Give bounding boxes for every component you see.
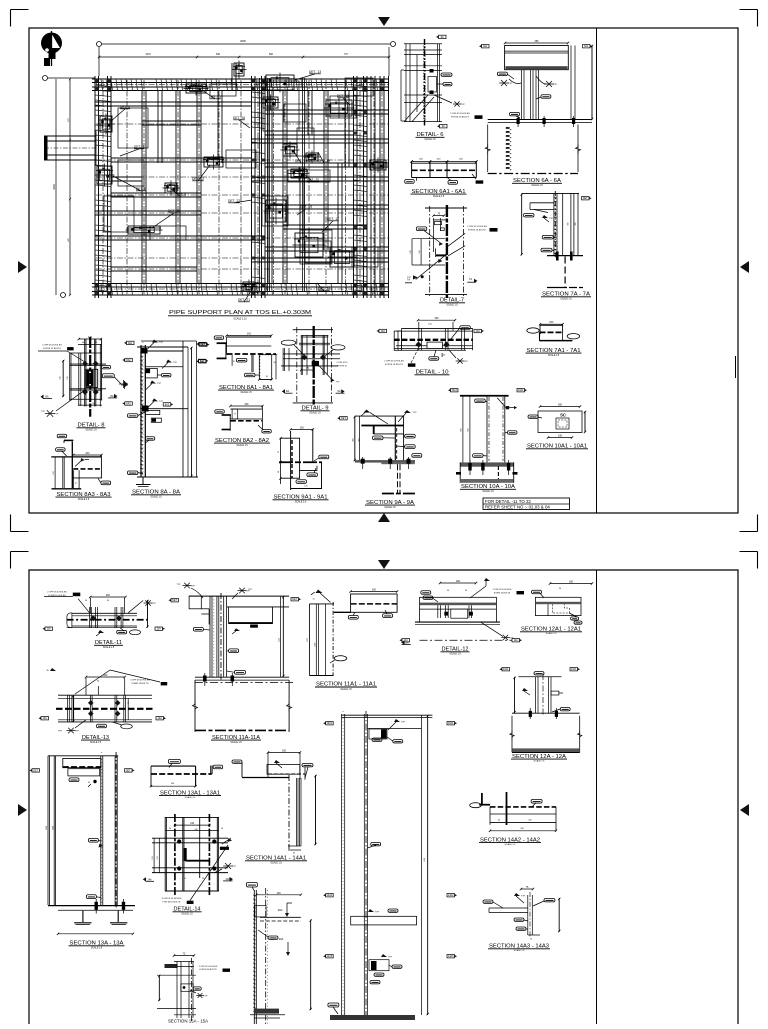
svg-text:120: 120 [152, 856, 154, 859]
section SECTION 6A1-6A1 [405, 159, 484, 199]
svg-text:12A: 12A [514, 639, 519, 642]
plan grid bubbles and dimensions [43, 39, 396, 298]
svg-text:TYP: TYP [335, 382, 340, 384]
svg-text:TYP: TYP [41, 411, 46, 413]
svg-text:SCALE 1:5: SCALE 1:5 [433, 195, 445, 198]
svg-text:2 OFF Ø 16: 2 OFF Ø 16 [337, 362, 349, 364]
sheet 1 fold tick on right border [735, 356, 737, 378]
svg-text:75: 75 [234, 414, 236, 416]
section SECTION 14A1-14A1 [232, 750, 317, 865]
svg-text:PIPE SUPPORT PLAN AT TOS EL.+0: PIPE SUPPORT PLAN AT TOS EL.+0.303M [169, 310, 311, 316]
svg-text:TYP: TYP [508, 83, 513, 85]
detail DETAIL-6 [401, 35, 483, 141]
svg-text:13A: 13A [158, 717, 163, 720]
svg-text:DET: DET [292, 598, 297, 601]
sheet 2 title block separator [596, 570, 598, 1024]
svg-text:FOR M 16 BOLTS: FOR M 16 BOLTS [468, 230, 486, 232]
svg-text:SCALE 1:5: SCALE 1:5 [449, 653, 461, 656]
sheet 1 centering mark left [18, 261, 27, 273]
svg-text:TYP: TYP [58, 731, 63, 733]
svg-text:240: 240 [190, 822, 195, 825]
svg-text:150: 150 [558, 435, 563, 438]
svg-text:DET: DET [172, 599, 177, 602]
svg-text:8A2: 8A2 [200, 360, 205, 363]
svg-text:2 OFF Ø 14 HOLES: 2 OFF Ø 14 HOLES [467, 226, 487, 228]
sheet 1 crop mark top-right [740, 9, 758, 11]
detail DETAIL-9 [281, 326, 348, 415]
svg-text:SCALE 1:5: SCALE 1:5 [424, 138, 436, 141]
detail DETAIL-10 [377, 317, 485, 375]
svg-text:150: 150 [549, 321, 554, 324]
svg-text:FOR M 16 BOLTS: FOR M 16 BOLTS [385, 364, 403, 366]
svg-text:TYP: TYP [173, 362, 178, 364]
svg-text:6A: 6A [442, 125, 445, 128]
svg-text:10A1: 10A1 [451, 389, 457, 392]
sheet 1 crop mark top-left [11, 9, 29, 11]
svg-text:SCALE 1:5: SCALE 1:5 [78, 498, 90, 501]
svg-text:800: 800 [269, 53, 274, 56]
svg-text:DET: DET [126, 769, 131, 772]
svg-text:SCALE 1:5: SCALE 1:5 [90, 741, 102, 744]
svg-text:120: 120 [157, 856, 159, 859]
svg-text:14A: 14A [147, 878, 152, 881]
svg-text:14A3: 14A3 [327, 955, 333, 958]
svg-text:20: 20 [202, 878, 204, 880]
section SECTION 12A-12A [500, 668, 582, 763]
svg-text:TYP: TYP [203, 996, 208, 998]
svg-text:DET- 17: DET- 17 [327, 217, 339, 221]
svg-text:450: 450 [353, 438, 355, 441]
svg-text:DET- 7: DET- 7 [134, 145, 144, 149]
svg-text:DET: DET [200, 343, 205, 346]
svg-text:2 OFF Ø 14 HOLES: 2 OFF Ø 14 HOLES [384, 361, 404, 363]
svg-text:2500: 2500 [53, 826, 55, 830]
svg-text:20: 20 [169, 828, 171, 830]
sheet 1 border [29, 28, 738, 513]
svg-text:200: 200 [106, 594, 111, 597]
svg-text:FOR M 16 BOLTS: FOR M 16 BOLTS [163, 901, 181, 903]
svg-text:180: 180 [569, 581, 574, 584]
section middle tall elevation (sheet 2 bottom) [246, 883, 312, 1025]
svg-text:SCALE 1:5: SCALE 1:5 [103, 646, 115, 649]
svg-text:FOR M 16: FOR M 16 [337, 365, 347, 367]
svg-text:1370: 1370 [145, 53, 151, 56]
svg-text:SCALE 1:10: SCALE 1:10 [233, 318, 247, 321]
svg-text:DET- 20: DET- 20 [318, 287, 330, 291]
svg-text:1125: 1125 [278, 638, 280, 642]
svg-text:FORM 16 BOLTS: FORM 16 BOLTS [494, 592, 511, 594]
svg-text:DET- 10: DET- 10 [168, 209, 180, 213]
left protruding beam [44, 130, 99, 166]
svg-text:8A: 8A [110, 394, 113, 398]
svg-text:DET: DET [33, 769, 38, 772]
note box FOR DETAIL 11 TO 22 [483, 498, 570, 510]
svg-text:10A1: 10A1 [518, 389, 524, 392]
svg-text:SCALE 1:5: SCALE 1:5 [185, 796, 197, 799]
svg-text:TYP: TYP [460, 104, 465, 106]
svg-text:2500: 2500 [46, 826, 48, 830]
section bottom-left small detail (sheet 2) [157, 953, 230, 1024]
svg-text:30: 30 [266, 376, 268, 378]
section SECTION 8A3-8A3 [51, 434, 112, 501]
detail DETAIL-7 [405, 205, 498, 307]
svg-text:12A1: 12A1 [503, 668, 509, 671]
detail DETAIL-8 [38, 336, 128, 432]
svg-text:60: 60 [82, 342, 84, 344]
sheet 1 centering mark right [740, 261, 749, 273]
svg-text:11A: 11A [47, 628, 51, 631]
svg-text:9A: 9A [286, 389, 289, 393]
svg-text:SCALE 1:5: SCALE 1:5 [560, 298, 572, 301]
svg-text:4 OFF Ø 16 HOLES: 4 OFF Ø 16 HOLES [130, 680, 150, 682]
svg-text:10: 10 [233, 361, 235, 363]
section SECTION 8A-8A [119, 340, 210, 499]
svg-text:DET- 15: DET- 15 [337, 94, 349, 98]
svg-text:13A: 13A [43, 717, 48, 720]
svg-text:160: 160 [244, 403, 249, 406]
svg-text:15: 15 [312, 599, 314, 601]
svg-text:150: 150 [304, 486, 307, 488]
north arrow symbol [41, 31, 62, 66]
svg-text:6A1: 6A1 [584, 45, 589, 48]
svg-text:DET: DET [583, 197, 588, 200]
svg-text:7A: 7A [469, 277, 472, 281]
svg-text:TYP: TYP [176, 584, 181, 586]
svg-text:16A1: 16A1 [327, 722, 333, 725]
sheet 1 title block separator [596, 28, 598, 513]
svg-text:8A3: 8A3 [165, 403, 170, 406]
svg-text:TYP: TYP [157, 383, 162, 385]
svg-text:2500: 2500 [53, 184, 56, 190]
plan detail cluster group [95, 61, 389, 294]
detail DETAIL-13 [39, 668, 168, 744]
sheet 2 centering mark right [740, 804, 749, 816]
svg-text:10A: 10A [476, 330, 481, 333]
sheet 2 border (cut off at page bottom) [29, 570, 738, 1024]
detail DETAIL-11 [43, 592, 166, 650]
svg-text:DET- 16: DET- 16 [233, 116, 245, 120]
svg-text:DET: DET [341, 417, 346, 420]
svg-text:30: 30 [273, 362, 275, 364]
svg-text:SCALE 1:5: SCALE 1:5 [91, 947, 103, 950]
svg-text:2 OFF Ø 16 HOLES: 2 OFF Ø 16 HOLES [42, 345, 62, 347]
svg-text:DET- 6: DET- 6 [120, 105, 130, 109]
svg-text:29A: 29A [279, 937, 284, 941]
svg-text:145: 145 [277, 892, 282, 895]
svg-text:FOR M-16 BOLTS: FOR M-16 BOLTS [451, 117, 469, 119]
svg-text:TYP: TYP [191, 586, 196, 588]
svg-text:DET- 11: DET- 11 [209, 95, 221, 99]
section SECTION 8A1-8A1 [196, 333, 277, 395]
svg-text:FOR M 16 BOLTS: FOR M 16 BOLTS [43, 348, 61, 350]
section SECTION 11A-11A [169, 583, 302, 744]
svg-text:REFER SHEET NO :- 02,03 & 04: REFER SHEET NO :- 02,03 & 04 [485, 505, 550, 510]
svg-text:SCALE 1:5: SCALE 1:5 [309, 412, 321, 415]
plan DET callout labels [110, 70, 350, 302]
section SECTION 10A1-10A1 [526, 404, 588, 450]
svg-text:6A1: 6A1 [483, 45, 488, 48]
section SECTION 7A1-7A1 [526, 321, 582, 357]
svg-text:240: 240 [372, 589, 377, 592]
svg-text:SCALE 1:5: SCALE 1:5 [236, 444, 248, 447]
svg-text:TYP: TYP [375, 912, 380, 914]
svg-text:SCALE 1:5: SCALE 1:5 [230, 741, 242, 744]
svg-text:14A2: 14A2 [448, 894, 454, 897]
svg-text:8A2: 8A2 [126, 359, 131, 362]
svg-text:TYP: TYP [401, 722, 406, 724]
svg-text:FOR DETAIL -11 TO 22: FOR DETAIL -11 TO 22 [485, 499, 531, 504]
svg-text:TYP: TYP [75, 731, 80, 733]
section SECTION 12A1-12A1 [520, 581, 593, 636]
svg-text:10A: 10A [381, 330, 386, 333]
svg-text:200: 200 [456, 580, 461, 583]
sheet 2 crop mark top-right [740, 551, 758, 553]
svg-text:12A: 12A [404, 639, 409, 642]
svg-text:45: 45 [88, 782, 90, 784]
svg-text:TYP: TYP [464, 361, 469, 363]
svg-text:8A1: 8A1 [128, 342, 133, 345]
svg-text:2 OFF Ø 16 HOLES: 2 OFF Ø 16 HOLES [47, 592, 67, 594]
sheet 2 centering mark left [18, 804, 27, 816]
svg-text:SCALE 1:5: SCALE 1:5 [295, 501, 307, 504]
section SECTION 9A-9A [337, 410, 422, 510]
section SECTION 7A-7A [521, 191, 592, 301]
svg-text:75: 75 [278, 451, 280, 453]
svg-text:30: 30 [278, 471, 280, 473]
svg-text:1100: 1100 [315, 643, 317, 647]
sheet 1 centering mark bottom [378, 513, 390, 522]
svg-text:SCALE 1:5: SCALE 1:5 [150, 496, 162, 499]
svg-text:SCALE 1:5: SCALE 1:5 [270, 862, 282, 865]
svg-text:SCALE 1:5: SCALE 1:5 [340, 688, 352, 691]
section SECTION 14A3-14A3 [483, 886, 560, 952]
svg-text:SCALE 1:5: SCALE 1:5 [534, 759, 546, 762]
svg-text:300: 300 [435, 317, 440, 320]
svg-text:2 OFF Ø 16 HOLES: 2 OFF Ø 16 HOLES [493, 589, 512, 591]
svg-text:2 OFF Ø 14 HOLES: 2 OFF Ø 14 HOLES [450, 113, 470, 115]
section SECTION 6A-6A [479, 40, 593, 187]
plan band tick texture [95, 79, 383, 295]
svg-text:2 OFF Ø 14 HOLES: 2 OFF Ø 14 HOLES [199, 966, 218, 968]
svg-text:300: 300 [558, 404, 563, 407]
svg-text:SCALE 1:5: SCALE 1:5 [446, 304, 458, 307]
section SECTION 14A2-14A2 [470, 792, 558, 846]
svg-text:7A: 7A [407, 278, 410, 282]
svg-text:SCALE 1:5: SCALE 1:5 [531, 184, 543, 187]
sheet 2 centering mark top [378, 560, 390, 569]
svg-text:TYP: TYP [549, 218, 554, 220]
svg-text:TYP: TYP [388, 957, 393, 959]
svg-text:241: 241 [247, 333, 252, 336]
svg-text:12A1: 12A1 [571, 668, 577, 671]
svg-text:TYP: TYP [232, 866, 237, 868]
svg-text:SCALE 1:5: SCALE 1:5 [548, 354, 560, 357]
svg-text:150: 150 [282, 750, 287, 753]
sheet 2 crop mark top-left [11, 551, 29, 553]
svg-text:9A: 9A [337, 389, 340, 393]
svg-text:727: 727 [344, 53, 349, 56]
svg-text:SC: SC [560, 413, 566, 418]
section SECTION 9A1-9A1 [273, 427, 329, 504]
svg-text:SCALE 1:5: SCALE 1:5 [181, 913, 193, 916]
svg-text:150: 150 [53, 471, 55, 474]
svg-text:20: 20 [184, 878, 186, 880]
svg-text:16A1: 16A1 [448, 722, 454, 725]
svg-text:DET- 19: DET- 19 [300, 205, 312, 209]
svg-text:60: 60 [92, 403, 94, 405]
svg-text:SCALE 1:5: SCALE 1:5 [505, 843, 517, 846]
svg-text:630: 630 [216, 53, 221, 56]
svg-text:DET- 13: DET- 13 [309, 70, 321, 74]
svg-text:TYP: TYP [553, 84, 558, 86]
svg-text:3600: 3600 [240, 39, 246, 43]
svg-text:SECTION 15A - 15A: SECTION 15A - 15A [168, 1019, 208, 1024]
section SECTION 11A1-11A1 [307, 589, 411, 691]
section SECTION 8A2-8A2 [214, 403, 271, 447]
section SECTION 13A-13A [30, 752, 136, 950]
detail DETAIL-14 [143, 814, 237, 916]
svg-text:20: 20 [221, 828, 223, 830]
svg-text:FORM 16 BOLTS: FORM 16 BOLTS [131, 683, 149, 685]
svg-text:DET- 9: DET- 9 [176, 193, 186, 197]
section SECTION 13A1-13A1 [150, 759, 223, 798]
svg-text:SCALE 1:5: SCALE 1:5 [240, 391, 252, 394]
svg-text:14A3: 14A3 [448, 955, 454, 958]
svg-text:SCALE 1:5: SCALE 1:5 [384, 506, 396, 509]
svg-text:TYP: TYP [412, 412, 417, 414]
svg-text:29A: 29A [278, 908, 283, 912]
pipe support plan frame [92, 76, 389, 298]
svg-text:160: 160 [85, 452, 90, 455]
sheet 1 crop mark bottom-right [740, 531, 758, 533]
svg-text:TYP: TYP [521, 896, 526, 898]
svg-text:14A2: 14A2 [327, 894, 333, 897]
svg-text:365: 365 [535, 40, 540, 43]
svg-text:TYP: TYP [152, 603, 157, 605]
detail DETAIL-12 [400, 578, 525, 656]
svg-text:6A: 6A [441, 36, 444, 39]
svg-text:1175: 1175 [307, 638, 309, 642]
svg-text:150: 150 [300, 427, 305, 430]
svg-text:SCALE 1:5: SCALE 1:5 [482, 490, 494, 493]
svg-text:TYP: TYP [54, 414, 59, 416]
svg-text:8A3: 8A3 [126, 403, 131, 406]
svg-text:75: 75 [76, 482, 78, 484]
svg-text:11A: 11A [157, 628, 161, 631]
svg-text:TYP: TYP [248, 589, 253, 591]
section SECTION 10A-10A [448, 389, 527, 494]
svg-text:SCALE 1:5: SCALE 1:5 [514, 949, 526, 952]
sheet 1 crop mark bottom-left [11, 531, 29, 533]
svg-text:4 OFF Ø 16 HOLES: 4 OFF Ø 16 HOLES [162, 898, 182, 900]
sheet 1 centering mark top [378, 17, 390, 26]
svg-text:8A: 8A [45, 395, 48, 399]
svg-text:FOR M-16 BOLTS: FOR M-16 BOLTS [200, 969, 218, 971]
tall right column elevation (sheet 2) [323, 711, 457, 1020]
svg-text:TYP: TYP [159, 342, 164, 344]
plan internal grid beams [95, 63, 389, 298]
svg-text:SCALE 1:5: SCALE 1:5 [546, 632, 558, 635]
svg-text:SCALE 1:5: SCALE 1:5 [85, 429, 97, 432]
